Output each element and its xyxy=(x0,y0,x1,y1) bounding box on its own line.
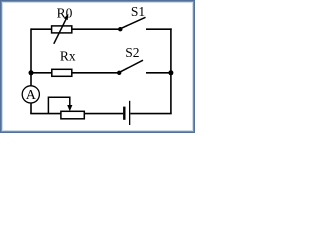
switch S2 xyxy=(117,60,143,75)
R0 arrow xyxy=(54,14,69,44)
wire S2 to right junction xyxy=(146,72,171,74)
svg-text:S1: S1 xyxy=(131,4,145,19)
rheostat R xyxy=(61,111,84,119)
svg-text:S2: S2 xyxy=(125,45,139,60)
wire top-left to R0 xyxy=(31,28,52,30)
wire right vertical xyxy=(170,28,172,113)
svg-text:A: A xyxy=(26,88,37,103)
ammeter A xyxy=(22,86,39,103)
svg-text:R0: R0 xyxy=(57,6,73,21)
svg-text:Rx: Rx xyxy=(60,49,76,64)
resistor R0 xyxy=(52,26,72,33)
node left junction xyxy=(29,70,34,75)
resistor Rx xyxy=(52,69,72,76)
wire rheostat to battery xyxy=(84,113,123,115)
battery cell xyxy=(123,101,130,125)
node right junction xyxy=(168,70,173,75)
wire middle to Rx xyxy=(31,72,52,74)
rheostat slider arm xyxy=(48,97,72,113)
wire Rx to S2 xyxy=(72,72,118,74)
switch S1 xyxy=(118,17,145,31)
wire ammeter to bottom corner xyxy=(30,103,32,114)
wire left vertical upper xyxy=(30,28,32,86)
wire S1 to right corner xyxy=(146,28,172,30)
wire R0 to S1 xyxy=(72,28,119,30)
wire bottom-left to rheostat xyxy=(30,113,61,115)
wire battery to bottom-right corner xyxy=(130,113,171,115)
